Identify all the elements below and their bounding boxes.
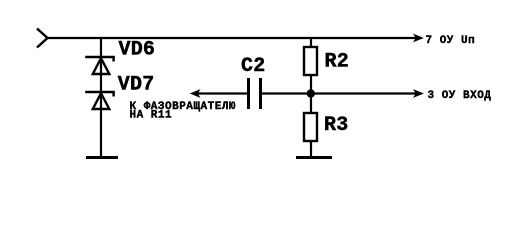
wire from top rail down through diodes to ground [100, 38, 102, 157]
arrowhead to pin 7 [414, 35, 422, 42]
svg-text:7 ОУ Uп: 7 ОУ Uп [426, 35, 476, 47]
wire from top rail down to R2 [310, 38, 312, 47]
wire from node to R3 [310, 93, 312, 113]
arrowhead to phase shifter [191, 90, 199, 97]
svg-text:R3: R3 [324, 114, 348, 137]
capacitor C2 [249, 78, 261, 109]
wire from R2 to node [310, 75, 312, 94]
input connector chevron [37, 29, 48, 48]
svg-text:VD7: VD7 [118, 74, 155, 97]
zener diode VD6 [85, 57, 115, 74]
svg-text:НА R11: НА R11 [130, 110, 173, 122]
wire from R3 to ground [310, 141, 312, 157]
resistor R3 [304, 113, 317, 141]
svg-text:C2: C2 [241, 55, 265, 78]
svg-text:R2: R2 [325, 50, 349, 73]
wire from arrow to C2 [198, 92, 248, 94]
ground right [296, 156, 332, 159]
zener diode VD7 [85, 92, 115, 109]
wire top horizontal [46, 37, 417, 39]
ground left [86, 156, 118, 159]
arrowhead to pin 3 [414, 90, 422, 97]
svg-text:VD6: VD6 [119, 39, 156, 62]
node junction dot [307, 89, 315, 97]
wire from C2 to node [262, 92, 311, 94]
wire from node to output arrow [311, 92, 417, 94]
svg-text:3 ОУ ВХОД: 3 ОУ ВХОД [428, 90, 492, 102]
resistor R2 [304, 47, 317, 75]
